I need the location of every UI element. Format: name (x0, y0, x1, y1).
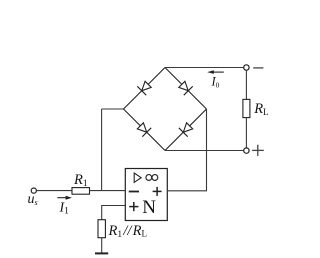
op-amp N (rectangle symbol) (125, 169, 167, 221)
wire: op-amp output to bridge right vertex (167, 109, 206, 191)
resistor RL (243, 99, 250, 117)
label RL (253, 101, 268, 117)
resistor R1 parallel RL (98, 220, 105, 238)
svg-text:R1: R1 (73, 172, 88, 189)
wire: bridge top vertex to minus output terminal (165, 67, 244, 69)
op-amp gain triangle glyph (134, 173, 141, 182)
label R1//RL (108, 223, 147, 240)
wire: RL down to plus terminal (245, 118, 247, 148)
op-amp label N (142, 197, 156, 218)
op-amp noninverting input marker (129, 202, 138, 211)
wire: balance resistor to ground (101, 238, 103, 253)
output terminal minus (244, 65, 249, 70)
label plus polarity (252, 145, 264, 156)
op-amp inverting input marker (129, 191, 139, 193)
diode bridge top-left arm (cathode toward left vertex) (124, 68, 166, 110)
label I0 (211, 74, 220, 89)
op-amp output plus marker (153, 187, 162, 196)
svg-text:R1 // RL: R1 // RL (108, 223, 147, 240)
label us (28, 192, 38, 207)
op-amp infinity glyph (146, 175, 158, 181)
svg-text:us: us (28, 192, 38, 207)
wire: minus terminal down to RL (245, 70, 247, 99)
current arrow I1 (57, 196, 72, 200)
wire: feedback vertical from bridge left vertex down to inverting input node (101, 109, 103, 191)
current arrow I0 (207, 70, 224, 74)
label minus polarity (253, 67, 263, 69)
label I1 (59, 201, 70, 217)
input terminal us (31, 188, 36, 193)
diode bridge bottom-left arm (cathode toward bottom vertex) (124, 109, 166, 151)
svg-text:RL: RL (253, 101, 268, 117)
wire: input terminal to R1 (37, 190, 73, 192)
svg-text:I0: I0 (211, 74, 220, 89)
svg-text:N: N (142, 197, 156, 218)
resistor R1 (72, 188, 90, 195)
diode bridge top-right arm (cathode toward right vertex) (165, 68, 207, 110)
ground (95, 252, 108, 254)
wire: bridge bottom vertex to plus terminal (165, 150, 244, 152)
wire: R1 to op-amp inverting input (90, 190, 126, 192)
svg-text:I1: I1 (59, 201, 70, 217)
label R1 (73, 172, 88, 189)
diode bridge bottom-right arm (cathode toward bottom vertex) (165, 109, 207, 151)
wire: bridge left vertex horizontal (102, 108, 124, 110)
wire: op-amp noninverting input to balance resistor (102, 206, 126, 220)
output terminal plus (244, 148, 249, 153)
